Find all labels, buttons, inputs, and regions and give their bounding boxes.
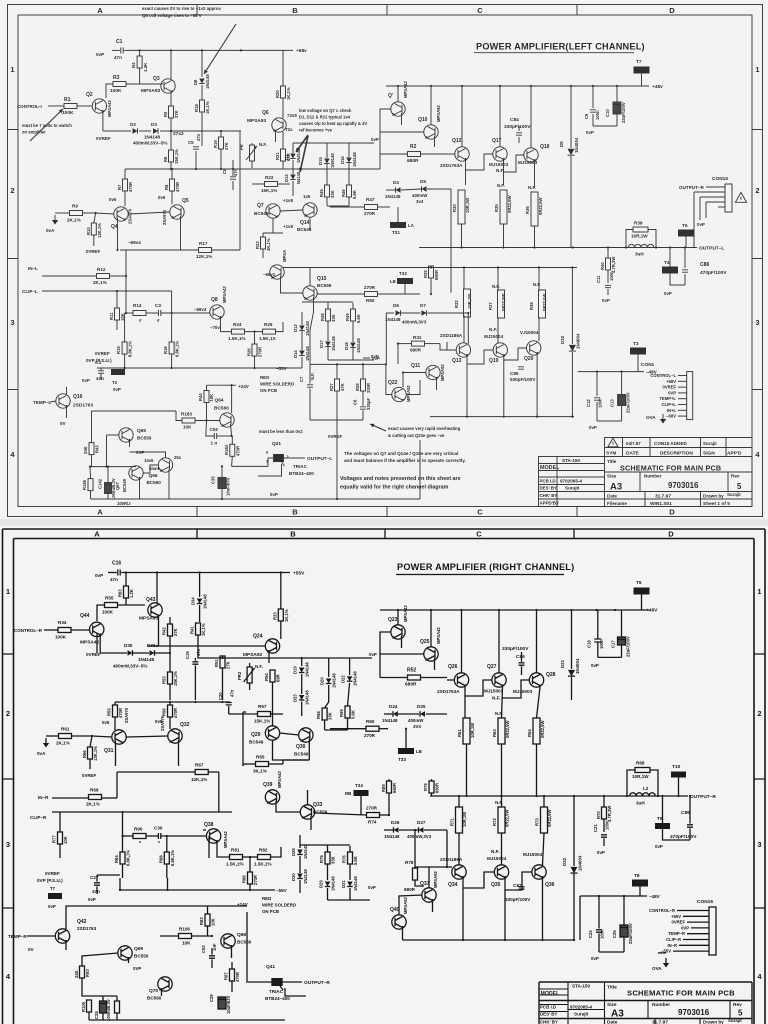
wire T6 drop: [641, 595, 643, 611]
svg-text:2SD1763A: 2SD1763A: [440, 163, 463, 168]
svg-text:R56: R56: [162, 708, 167, 716]
svg-text:A3: A3: [610, 482, 622, 493]
svg-text:APPD’BY: APPD’BY: [540, 501, 560, 506]
wire R63: [125, 573, 127, 587]
svg-text:LA: LA: [408, 223, 415, 228]
svg-text:N.F.: N.F.: [533, 282, 541, 287]
svg-text:MPSA43: MPSA43: [403, 81, 408, 98]
svg-text:1N4148: 1N4148: [305, 346, 310, 361]
resistor R70: [602, 807, 607, 819]
diode D22: [347, 676, 353, 681]
svg-text:470R: 470R: [173, 708, 178, 718]
transistor Q34: [452, 865, 466, 879]
svg-text:1000u/6.3V: 1000u/6.3V: [106, 999, 111, 1021]
wire R31: [398, 343, 412, 345]
resistor R36: [531, 192, 538, 226]
resistor R34: [58, 628, 71, 633]
svg-text:10R,1W: 10R,1W: [465, 198, 470, 213]
wire -48V: [578, 371, 644, 373]
svg-text:1: 1: [755, 65, 759, 74]
resistor R26: [252, 344, 257, 356]
svg-text:1N4148: 1N4148: [331, 336, 336, 351]
svg-text:530pF/100V: 530pF/100V: [510, 377, 536, 382]
svg-text:47n: 47n: [196, 648, 201, 656]
resistor R10: [91, 223, 96, 235]
wire C10: [616, 86, 618, 102]
transistor Q30: [299, 728, 313, 742]
wire input node p2: [122, 812, 124, 836]
svg-text:R39: R39: [634, 221, 643, 226]
svg-text:ref becomes +ve: ref becomes +ve: [299, 128, 333, 133]
capacitor C29: [218, 997, 226, 1009]
svg-text:C35: C35: [211, 476, 216, 484]
svg-text:N.F.: N.F.: [259, 142, 267, 147]
svg-text:31.7.97: 31.7.97: [652, 1020, 668, 1024]
svg-text:IN–R: IN–R: [38, 795, 49, 800]
wire D21: [571, 610, 573, 669]
svg-text:N.F.: N.F.: [496, 168, 504, 173]
svg-text:0R22,5W: 0R22,5W: [505, 809, 510, 827]
transistor Q64: [220, 413, 234, 427]
resistor R14: [133, 311, 146, 316]
svg-text:R2: R2: [410, 144, 417, 150]
svg-text:–69v1: –69v1: [263, 272, 276, 277]
svg-text:C7: C7: [299, 376, 304, 382]
svg-text:MPSA: MPSA: [282, 250, 287, 262]
diode D23: [299, 695, 305, 700]
black bar T8: [632, 880, 648, 887]
svg-text:680R: 680R: [434, 270, 439, 280]
svg-text:D29: D29: [319, 880, 324, 888]
svg-text:Q16: Q16: [73, 394, 83, 400]
svg-text:1N4148: 1N4148: [305, 321, 310, 336]
svg-text:+24V: +24V: [238, 384, 250, 389]
svg-text:1N4148: 1N4148: [205, 74, 210, 89]
wire lower stage p2: [458, 833, 460, 865]
svg-text:OUTPUT–L: OUTPUT–L: [307, 456, 332, 462]
svg-text:1N4148: 1N4148: [303, 869, 308, 884]
svg-text:1000u/6.3V: 1000u/6.3V: [111, 478, 116, 500]
pot PR1: [250, 145, 255, 161]
wire R18 down: [201, 112, 203, 146]
wire +68v right rail: [386, 85, 649, 87]
transistor Q28: [529, 673, 543, 687]
svg-text:MODEL: MODEL: [541, 991, 561, 997]
wire R67 row: [117, 771, 195, 773]
svg-text:+48V: +48V: [646, 608, 658, 614]
capacitor C9: [590, 110, 596, 112]
svg-text:33K: 33K: [328, 712, 333, 720]
svg-text:R93: R93: [85, 969, 90, 977]
svg-text:–68V: –68V: [666, 414, 676, 419]
svg-text:1N9148: 1N9148: [330, 153, 335, 168]
svg-text:330R: 330R: [366, 383, 371, 393]
svg-text:C89: C89: [681, 810, 690, 816]
svg-text:Q25: Q25: [420, 639, 430, 645]
svg-text:IN–R: IN–R: [667, 943, 677, 948]
wire R22: [252, 183, 265, 185]
svg-text:T2x: T2x: [285, 127, 293, 132]
svg-text:C18: C18: [587, 640, 592, 648]
svg-text:R12: R12: [97, 267, 106, 272]
svg-text:100n: 100n: [609, 271, 614, 281]
svg-text:47n: 47n: [230, 689, 235, 697]
svg-text:R58: R58: [316, 711, 321, 719]
wire D9-D10 column: [570, 189, 572, 248]
svg-text:D2: D2: [130, 122, 136, 127]
resistor R93: [80, 966, 85, 978]
wire triac p2: [247, 968, 272, 982]
svg-text:680R: 680R: [435, 783, 440, 793]
black bar T6: [634, 588, 650, 595]
capacitor C21: [601, 835, 607, 837]
transistor Q35: [494, 865, 508, 879]
svg-text:Q11: Q11: [411, 363, 420, 369]
resistor R185: [88, 479, 93, 491]
svg-text:0vP: 0vP: [589, 425, 597, 430]
svg-text:Q10: Q10: [418, 117, 428, 123]
svg-text:1K,1%: 1K,1%: [286, 87, 291, 100]
resistor R183: [182, 418, 195, 423]
svg-text:5.6K: 5.6K: [351, 710, 356, 719]
svg-text:0vP: 0vP: [113, 387, 121, 392]
wire thermal p2: [82, 953, 118, 966]
resistor R69: [89, 795, 102, 800]
svg-text:680R: 680R: [405, 682, 417, 688]
wire R84/R88: [122, 836, 124, 852]
svg-text:CHK’ BY: CHK’ BY: [540, 493, 558, 498]
wire R43: [91, 411, 93, 443]
wire C52: [206, 421, 214, 437]
svg-text:on amplifier: on amplifier: [22, 130, 46, 135]
resistor R89: [387, 781, 392, 793]
connector CON1: [687, 372, 693, 420]
resistor R59: [345, 706, 350, 718]
svg-text:R78: R78: [405, 860, 414, 865]
svg-text:1N4148: 1N4148: [384, 834, 400, 839]
svg-text:OUTPUT–R: OUTPUT–R: [304, 980, 330, 986]
wire R84 to -55: [119, 878, 121, 890]
wire Q44 emitter: [99, 633, 101, 653]
wire Q17: [499, 86, 501, 147]
svg-text:D17: D17: [319, 340, 324, 348]
svg-text:1N4148: 1N4148: [352, 152, 357, 167]
transistor Q36: [532, 865, 546, 879]
svg-text:TEMP–R: TEMP–R: [8, 934, 27, 939]
svg-text:–55V: –55V: [276, 366, 288, 371]
svg-text:R42: R42: [162, 627, 167, 635]
diode D15: [324, 159, 330, 164]
transistor Q11: [426, 365, 440, 379]
wire lower bases p2: [414, 867, 416, 868]
svg-text:0VREF: 0VREF: [45, 871, 60, 876]
svg-text:0R22,5W: 0R22,5W: [540, 720, 545, 738]
capacitor C3: [158, 310, 160, 316]
svg-text:RED: RED: [260, 375, 269, 380]
svg-text:R38: R38: [529, 302, 534, 310]
capacitor C11: [605, 285, 611, 287]
wire R10: [94, 213, 96, 223]
diode D13: [299, 326, 305, 331]
svg-text:3: 3: [10, 318, 14, 327]
wire Q2 emitter down: [102, 110, 104, 131]
svg-text:5.6K: 5.6K: [352, 190, 357, 199]
wire C18: [597, 610, 599, 639]
svg-text:04/7.97: 04/7.97: [626, 441, 641, 446]
svg-text:0VP: 0VP: [136, 450, 144, 455]
resistor R77: [58, 832, 63, 844]
wire stack tops p2: [464, 687, 466, 718]
svg-text:24K: 24K: [83, 446, 88, 454]
transistor Q25: [424, 647, 438, 661]
svg-text:T8: T8: [634, 873, 640, 879]
svg-text:Q69: Q69: [134, 946, 143, 952]
svg-text:D21: D21: [560, 659, 565, 668]
svg-text:C11: C11: [596, 275, 601, 283]
svg-text:TEMP+L: TEMP+L: [659, 396, 676, 401]
black bar T9: [655, 823, 670, 829]
svg-text:100K: 100K: [55, 635, 67, 640]
wire CONTROL-I to R1: [48, 105, 64, 107]
revision table: [605, 438, 753, 457]
svg-text:0vP: 0vP: [368, 885, 376, 890]
svg-text:10R,1W: 10R,1W: [631, 234, 648, 239]
ground OVA con16: [665, 958, 667, 963]
wire upper bias rail: [125, 168, 380, 170]
wire R19: [220, 131, 222, 137]
svg-text:Surajit: Surajit: [703, 441, 717, 446]
svg-text:680R: 680R: [404, 887, 416, 892]
svg-text:100n: 100n: [598, 398, 603, 408]
svg-text:3K,1%: 3K,1%: [266, 238, 271, 251]
svg-text:Q': Q': [388, 93, 393, 99]
svg-text:Rev: Rev: [731, 474, 740, 479]
wire +48v rail p2: [380, 609, 649, 611]
svg-text:Q21: Q21: [272, 441, 281, 447]
svg-text:Q14: Q14: [300, 220, 310, 226]
wire R48/R49 cluster: [327, 302, 329, 309]
wire R3 to Q2: [106, 84, 113, 98]
svg-text:0vP: 0vP: [697, 222, 705, 227]
svg-text:Surajit: Surajit: [728, 1018, 742, 1023]
svg-text:0vP: 0vP: [664, 291, 672, 296]
svg-text:2SA970: 2SA970: [128, 208, 133, 224]
svg-text:Q26: Q26: [448, 664, 458, 670]
svg-text:POWER AMPLIFIER (RIGHT CHANNEL: POWER AMPLIFIER (RIGHT CHANNEL): [397, 562, 574, 572]
svg-text:Q64: Q64: [215, 398, 224, 404]
svg-text:2SD1763: 2SD1763: [73, 403, 93, 409]
svg-text:3: 3: [6, 840, 10, 849]
svg-text:MODEL: MODEL: [540, 465, 560, 471]
wire Q26-Q28: [461, 610, 463, 673]
wire Q66/Q67: [143, 465, 159, 473]
wire bottom cluster p2: [89, 995, 117, 997]
svg-text:–55V: –55V: [276, 888, 288, 893]
svg-text:T33: T33: [398, 757, 406, 762]
svg-text:R35: R35: [494, 204, 499, 212]
wire -55V row p2: [97, 874, 120, 876]
transistor Q5b: [270, 265, 284, 279]
svg-text:Q13: Q13: [452, 358, 462, 364]
annotation arrow to R1: [30, 109, 63, 141]
wire Q7/Q14 link: [280, 210, 303, 211]
svg-text:470R: 470R: [235, 446, 240, 456]
resistor R20: [281, 86, 286, 98]
wire T4: [669, 248, 671, 267]
svg-text:MPSA92: MPSA92: [433, 871, 438, 888]
diode D11: [290, 154, 296, 159]
wire CLIP-L: [42, 290, 172, 292]
svg-text:DATE: DATE: [626, 451, 640, 457]
wire Q15: [281, 276, 304, 293]
svg-text:D3: D3: [151, 122, 157, 127]
svg-text:Q38: Q38: [204, 822, 214, 828]
wire Q4/Q5 emitters: [117, 218, 119, 250]
transistor Q4: [114, 207, 128, 221]
svg-text:400mW,33V–5%: 400mW,33V–5%: [113, 664, 147, 669]
resistor R64s: [533, 718, 540, 744]
warning triangle out: [735, 192, 746, 202]
svg-text:BC560: BC560: [147, 480, 162, 485]
svg-text:TRIAC: TRIAC: [269, 989, 284, 994]
svg-text:0vA: 0vA: [46, 228, 55, 233]
svg-text:27K: 27K: [174, 110, 179, 118]
svg-text:IN+L: IN+L: [667, 408, 677, 413]
svg-text:T5: T5: [682, 223, 688, 229]
svg-text:1K,1%: 1K,1%: [201, 623, 206, 636]
resistor R1: [64, 104, 77, 109]
svg-text:1N4004: 1N4004: [576, 333, 581, 349]
transistor Q3: [161, 79, 175, 93]
svg-text:0vP: 0vP: [82, 378, 90, 383]
svg-text:0vP: 0vP: [270, 492, 278, 497]
svg-text:R27: R27: [329, 383, 334, 391]
svg-text:10K: 10K: [211, 918, 216, 926]
svg-text:R41: R41: [190, 626, 195, 634]
svg-text:27K: 27K: [224, 142, 229, 150]
svg-text:R3: R3: [113, 75, 120, 81]
wire R70: [603, 796, 605, 807]
svg-text:R19: R19: [213, 140, 218, 148]
svg-text:2K,1%: 2K,1%: [56, 741, 70, 746]
svg-text:MPSA92: MPSA92: [440, 364, 445, 381]
svg-text:BC549: BC549: [254, 211, 269, 216]
svg-text:270R: 270R: [258, 347, 263, 357]
svg-text:CONTROL–R: CONTROL–R: [14, 628, 43, 633]
svg-text:ON PCB: ON PCB: [260, 388, 277, 393]
svg-text:Size: Size: [607, 474, 617, 479]
svg-text:D5: D5: [420, 179, 426, 184]
junction dots rail p2: [125, 571, 127, 573]
resistor R90: [133, 834, 146, 839]
svg-text:12K,1%: 12K,1%: [97, 223, 102, 238]
triac Q41: [272, 978, 277, 986]
svg-text:2SD1763: 2SD1763: [77, 926, 97, 931]
resistor R40: [606, 258, 611, 270]
svg-text:100K: 100K: [62, 110, 74, 116]
resistor R55: [105, 603, 118, 608]
transistor Q19: [493, 343, 507, 357]
ground 0vA mid: [54, 215, 56, 220]
svg-text:1N4148: 1N4148: [138, 657, 155, 662]
wire lower top rail: [283, 267, 577, 269]
svg-text:1 n: 1 n: [211, 441, 218, 446]
svg-text:100R/J: 100R/J: [117, 501, 131, 506]
svg-text:0R22,5W: 0R22,5W: [501, 293, 506, 311]
svg-text:D18: D18: [344, 342, 349, 350]
svg-text:D24: D24: [389, 704, 398, 709]
svg-text:680R: 680R: [410, 348, 422, 353]
svg-text:BC560: BC560: [237, 940, 252, 945]
black bar T7: [634, 67, 650, 74]
svg-text:C: C: [476, 530, 482, 539]
svg-text:R55: R55: [107, 708, 112, 716]
capacitor C28: [100, 1001, 107, 1013]
svg-text:10R,1W: 10R,1W: [632, 774, 649, 779]
svg-text:1.2K: 1.2K: [129, 589, 134, 598]
wire D32: [573, 796, 575, 866]
svg-text:BTB24–400: BTB24–400: [265, 996, 290, 1001]
wire T33: [405, 729, 407, 748]
svg-text:D19: D19: [293, 666, 298, 674]
resistor R107: [115, 1001, 120, 1013]
transistor Q40: [392, 915, 406, 929]
wire R55/R56 down: [114, 702, 116, 705]
black bar T10: [671, 772, 686, 778]
svg-text:0vP: 0vP: [655, 844, 663, 849]
wire R7/R8 down: [124, 169, 126, 179]
svg-text:10R,1W: 10R,1W: [462, 812, 467, 827]
resistor R39: [633, 227, 648, 232]
wire 0VREF row: [103, 130, 131, 132]
wire lower stage bases: [447, 342, 456, 350]
svg-text:27K: 27K: [173, 628, 178, 636]
svg-text:#: #: [157, 318, 160, 323]
svg-text:15K,1%: 15K,1%: [173, 671, 178, 686]
svg-text:22uF/100V: 22uF/100V: [621, 102, 626, 123]
svg-text:R60: R60: [366, 719, 375, 724]
black bar T2: [111, 369, 125, 375]
wire C35: [221, 466, 223, 478]
resistor R88: [164, 852, 169, 864]
svg-text:BC549: BC549: [294, 752, 309, 757]
svg-text:330pF/100V: 330pF/100V: [505, 897, 531, 902]
svg-text:9703016: 9703016: [668, 481, 699, 490]
svg-text:D: D: [669, 508, 675, 517]
wire D6/D7 row: [386, 312, 394, 314]
svg-text:R68: R68: [636, 761, 645, 766]
wire T9: [662, 796, 664, 823]
svg-text:400mW,3V3: 400mW,3V3: [407, 834, 432, 839]
wire R58/R59: [325, 685, 329, 708]
wire Q31/Q32 emitters: [115, 741, 117, 752]
wire R2: [380, 153, 408, 155]
svg-text:R15: R15: [116, 346, 121, 354]
svg-text:DES’ BY: DES’ BY: [540, 486, 557, 491]
svg-text:N.F.: N.F.: [492, 696, 500, 701]
svg-text:STA-150: STA-150: [572, 984, 590, 989]
svg-text:0VP (P.S.U.): 0VP (P.S.U.): [37, 878, 63, 883]
capacitor C1: [121, 47, 123, 53]
resistor R82: [258, 855, 271, 860]
svg-text:MJ15004: MJ15004: [484, 334, 504, 339]
wire D28/D30: [299, 835, 301, 848]
wire -48V p2: [580, 895, 647, 897]
resistor R57: [258, 712, 271, 717]
svg-text:470R: 470R: [128, 182, 133, 192]
svg-text:3K,1%: 3K,1%: [253, 769, 267, 774]
svg-text:C10: C10: [605, 109, 610, 117]
